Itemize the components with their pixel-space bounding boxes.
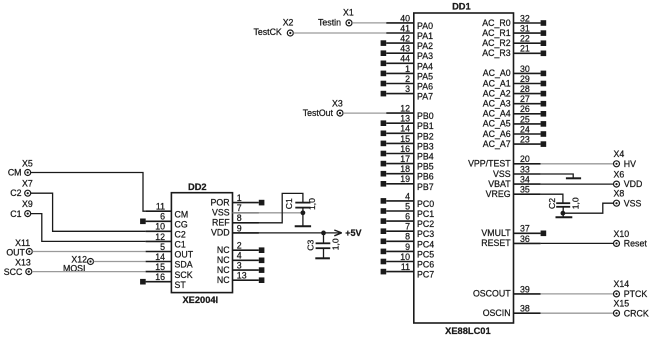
svg-text:34: 34 — [520, 175, 530, 185]
svg-text:SDA: SDA — [175, 260, 193, 270]
terminal X10 Reset — [614, 229, 648, 249]
svg-text:8: 8 — [405, 232, 410, 242]
svg-text:PB6: PB6 — [417, 172, 434, 182]
svg-text:C2: C2 — [175, 230, 186, 240]
terminal X11 OUT — [6, 238, 32, 257]
svg-text:AC_A0: AC_A0 — [483, 68, 511, 78]
svg-text:OUT: OUT — [6, 247, 25, 257]
svg-text:XE88LC01: XE88LC01 — [445, 326, 490, 336]
DD1 pin 17 PB5 — [381, 154, 434, 172]
svg-text:21: 21 — [520, 44, 530, 54]
svg-text:Testin: Testin — [318, 17, 341, 27]
DD1 pin 39 OSCOUT — [473, 284, 541, 298]
IC DD2 XE2004I body — [171, 182, 232, 305]
svg-text:12: 12 — [155, 232, 165, 242]
svg-text:RESET: RESET — [481, 238, 511, 248]
wire X7 C2 to DD2 pin 10 — [31, 193, 146, 231]
svg-text:+5V: +5V — [345, 228, 361, 238]
DD1 pin 35 VREG — [486, 185, 541, 199]
svg-text:10: 10 — [155, 222, 165, 232]
svg-text:SCK: SCK — [175, 270, 193, 280]
svg-text:9: 9 — [237, 223, 242, 233]
svg-text:CM: CM — [175, 209, 189, 219]
svg-text:VPP/TEST: VPP/TEST — [468, 159, 511, 169]
DD1 pin 4 PC0 — [381, 191, 435, 209]
svg-text:32: 32 — [520, 13, 530, 23]
svg-text:PC6: PC6 — [417, 260, 434, 270]
svg-text:3: 3 — [237, 261, 242, 271]
wire DD1 VBAT pin34 to X6 — [541, 183, 613, 185]
DD1 pin 8 PC4 — [381, 232, 435, 250]
terminal X8 VSS — [614, 189, 642, 209]
svg-text:11: 11 — [156, 202, 165, 212]
svg-text:C2: C2 — [10, 188, 21, 198]
DD1 pin 38 OSCIN — [483, 304, 541, 318]
terminal X9 C1 — [10, 199, 33, 219]
svg-text:9: 9 — [405, 242, 410, 252]
wire C2 node to X8 — [563, 203, 613, 213]
svg-text:VREG: VREG — [486, 189, 511, 199]
svg-text:PB3: PB3 — [417, 141, 434, 151]
svg-text:AC_A3: AC_A3 — [483, 99, 511, 109]
terminal X2 TestCK — [253, 17, 293, 37]
svg-text:44: 44 — [400, 54, 410, 64]
DD2 pin 6 CG — [140, 212, 188, 230]
svg-text:7: 7 — [237, 203, 242, 213]
DD1 pin 14 PB2 — [381, 124, 434, 142]
ground for C1 — [295, 225, 311, 227]
svg-text:X7: X7 — [22, 179, 33, 189]
svg-text:VBAT: VBAT — [488, 179, 511, 189]
svg-text:PA1: PA1 — [417, 31, 433, 41]
svg-text:AC_A6: AC_A6 — [483, 129, 511, 139]
svg-text:VDD: VDD — [624, 179, 643, 189]
svg-text:X3: X3 — [332, 99, 343, 109]
wire DD2 VDD pin9 to +5V node — [233, 232, 324, 234]
svg-text:X5: X5 — [22, 158, 33, 168]
svg-text:22: 22 — [520, 34, 530, 44]
svg-text:PC2: PC2 — [417, 219, 434, 229]
svg-text:PB4: PB4 — [417, 152, 434, 162]
svg-text:40: 40 — [400, 13, 410, 23]
wire X3 to DD1 pin 12 — [343, 112, 386, 114]
svg-text:C3: C3 — [305, 239, 315, 250]
svg-text:28: 28 — [520, 84, 530, 94]
svg-text:35: 35 — [520, 185, 530, 195]
svg-text:X6: X6 — [614, 170, 625, 180]
DD1 pin 24 AC_A6 — [483, 124, 546, 138]
svg-text:X13: X13 — [15, 258, 31, 268]
svg-text:AC_R2: AC_R2 — [482, 38, 510, 48]
svg-text:31: 31 — [520, 24, 530, 34]
svg-text:1: 1 — [405, 64, 410, 74]
DD1 pin 18 PB6 — [381, 164, 434, 182]
svg-text:14: 14 — [400, 124, 410, 134]
svg-text:20: 20 — [520, 154, 530, 164]
DD1 pin 43 PA3 — [381, 44, 433, 62]
svg-text:AC_A2: AC_A2 — [483, 88, 511, 98]
svg-text:4: 4 — [405, 191, 410, 201]
terminal X14 PTCK — [614, 279, 648, 299]
DD1 pin 13 PB1 — [381, 114, 434, 132]
svg-text:10: 10 — [400, 252, 410, 262]
svg-text:42: 42 — [400, 34, 410, 44]
DD1 pin 2 PA6 — [381, 74, 433, 92]
svg-text:POR: POR — [211, 197, 230, 207]
ground for C3 — [315, 257, 330, 259]
svg-text:NC: NC — [217, 275, 230, 285]
DD1 pin 37 VMULT — [481, 224, 546, 238]
svg-text:2: 2 — [405, 74, 410, 84]
wire DD2 REF pin8 up to capacitor C1 top — [233, 193, 303, 222]
terminal X15 CRCK — [614, 299, 649, 319]
svg-text:XE2004I: XE2004I — [182, 295, 218, 305]
svg-text:16: 16 — [155, 272, 165, 282]
svg-text:CRCK: CRCK — [624, 308, 649, 318]
svg-text:X4: X4 — [614, 149, 625, 159]
svg-text:1,0: 1,0 — [307, 198, 317, 210]
svg-text:AC_R0: AC_R0 — [482, 18, 510, 28]
DD1 pin 28 AC_A2 — [483, 84, 546, 98]
DD2 pin 14 SDA — [146, 252, 193, 270]
wire DD1 VPP/TEST pin20 to X4 — [541, 163, 613, 165]
DD1 pin 30 AC_A0 — [483, 64, 546, 78]
svg-text:15: 15 — [155, 262, 165, 272]
terminal X13 SCC — [4, 258, 32, 278]
DD1 pin 11 PC7 — [381, 262, 435, 280]
svg-text:PC5: PC5 — [417, 249, 434, 259]
DD2 pin 9 VDD — [211, 223, 259, 237]
DD1 pin 19 PB7 — [381, 174, 434, 192]
svg-text:PA7: PA7 — [417, 92, 433, 102]
svg-text:13: 13 — [237, 271, 247, 281]
DD1 pin 16 PB4 — [381, 144, 434, 162]
svg-text:4: 4 — [237, 251, 242, 261]
svg-text:TestOut: TestOut — [303, 108, 334, 118]
svg-text:1: 1 — [237, 193, 242, 203]
DD1 pin 27 AC_A3 — [483, 94, 546, 108]
wire DD1 OSCOUT pin39 to X14 — [541, 293, 613, 295]
DD1 pin 31 AC_R1 — [482, 24, 546, 38]
DD2 pin 3 NC — [217, 261, 265, 275]
svg-text:TestCK: TestCK — [253, 27, 281, 37]
svg-text:13: 13 — [400, 114, 410, 124]
DD1 pin 26 AC_A4 — [483, 104, 546, 118]
svg-text:NC: NC — [217, 255, 230, 265]
svg-text:VDD: VDD — [211, 228, 230, 238]
svg-text:16: 16 — [400, 144, 410, 154]
svg-text:OUT: OUT — [175, 250, 194, 260]
svg-text:6: 6 — [405, 212, 410, 222]
capacitor C2 — [547, 197, 580, 217]
wire DD1 VREG pin35 to capacitor C2 — [541, 194, 563, 203]
svg-text:VSS: VSS — [212, 208, 230, 218]
svg-text:AC_A1: AC_A1 — [483, 78, 511, 88]
svg-text:CM: CM — [8, 168, 22, 178]
DD1 pin 10 PC6 — [381, 252, 435, 270]
DD1 pin 12 PB0 — [386, 104, 434, 122]
svg-text:X9: X9 — [22, 199, 33, 209]
DD1 pin 40 PA0 — [386, 13, 433, 31]
terminal X6 VDD — [614, 170, 643, 190]
wire DD2 VSS pin7 to C1 node — [233, 212, 302, 214]
svg-text:1,0: 1,0 — [330, 238, 340, 250]
svg-text:5: 5 — [160, 242, 165, 252]
svg-text:43: 43 — [400, 44, 410, 54]
svg-text:11: 11 — [401, 262, 410, 272]
svg-text:38: 38 — [520, 304, 530, 314]
terminal X3 TestOut — [303, 99, 343, 118]
svg-text:PA5: PA5 — [417, 71, 433, 81]
DD1 pin 5 PC1 — [381, 201, 435, 219]
svg-text:PB1: PB1 — [417, 121, 434, 131]
terminal X1 Testin — [318, 8, 354, 28]
svg-text:15: 15 — [400, 134, 410, 144]
svg-text:NC: NC — [217, 265, 230, 275]
DD1 pin 22 AC_R2 — [482, 34, 546, 48]
svg-text:12: 12 — [400, 104, 410, 114]
svg-text:PC1: PC1 — [417, 209, 434, 219]
svg-text:PC0: PC0 — [417, 199, 434, 209]
wire DD1 OSCIN pin38 to X15 — [541, 312, 613, 314]
IC DD1 XE88LC01 body — [414, 1, 514, 336]
svg-text:PC7: PC7 — [417, 270, 434, 280]
junction node C1/VSS — [301, 210, 306, 215]
DD1 pin 6 PC2 — [381, 212, 435, 230]
svg-text:PA2: PA2 — [417, 41, 433, 51]
DD1 pin 15 PB3 — [381, 134, 434, 152]
svg-text:17: 17 — [400, 154, 410, 164]
svg-text:X1: X1 — [343, 8, 354, 18]
svg-text:25: 25 — [520, 114, 530, 124]
DD2 pin 4 NC — [217, 251, 265, 265]
svg-text:AC_R1: AC_R1 — [482, 28, 510, 38]
svg-text:19: 19 — [400, 174, 410, 184]
capacitor C1 — [284, 198, 317, 226]
capacitor C3 — [305, 233, 340, 258]
svg-text:PB0: PB0 — [417, 111, 434, 121]
wire X9 C1 to DD2 pin 12 — [31, 214, 146, 242]
svg-text:1,0: 1,0 — [571, 197, 581, 209]
terminal X7 C2 — [10, 179, 33, 199]
DD2 pin 8 REF — [212, 213, 259, 227]
svg-text:DD1: DD1 — [452, 1, 471, 11]
svg-text:Reset: Reset — [624, 239, 648, 249]
svg-text:36: 36 — [520, 234, 530, 244]
wire X1 to DD1 pin 40 — [352, 22, 386, 24]
DD2 pin 13 NC — [217, 271, 265, 285]
svg-text:PA4: PA4 — [417, 61, 433, 71]
wire X2 to DD1 pin 41 — [294, 32, 387, 34]
svg-text:PC4: PC4 — [417, 239, 434, 249]
DD2 pin 11 CM — [146, 202, 189, 220]
svg-text:AC_A7: AC_A7 — [483, 139, 511, 149]
DD1 pin 36 RESET — [481, 234, 540, 248]
svg-text:C2: C2 — [547, 198, 557, 209]
svg-text:29: 29 — [520, 74, 530, 84]
svg-text:REF: REF — [212, 218, 230, 228]
DD2 pin 16 ST — [140, 272, 186, 290]
svg-text:X8: X8 — [614, 189, 625, 199]
wire DD1 RESET pin36 to X10 — [541, 242, 613, 244]
svg-text:18: 18 — [400, 164, 410, 174]
DD2 pin 5 OUT — [146, 242, 194, 260]
ground for VSS33 — [566, 177, 581, 179]
svg-text:HV: HV — [624, 159, 636, 169]
+5V power arrow — [324, 228, 362, 238]
svg-text:PA3: PA3 — [417, 51, 433, 61]
svg-text:39: 39 — [520, 284, 530, 294]
svg-text:PB2: PB2 — [417, 131, 434, 141]
svg-text:NC: NC — [217, 245, 230, 255]
svg-text:23: 23 — [520, 135, 530, 145]
DD1 pin 33 VSS — [493, 164, 541, 178]
DD1 pin 29 AC_A1 — [483, 74, 546, 88]
DD1 pin 41 PA1 — [386, 23, 433, 41]
junction node C2/X8 — [561, 211, 566, 216]
terminal X12 MOSI — [63, 255, 93, 274]
DD1 pin 23 AC_A7 — [483, 135, 546, 149]
wire X13 SCC to DD2 pin 15 — [32, 271, 146, 273]
svg-text:33: 33 — [520, 164, 530, 174]
DD2 pin 1 POR — [211, 193, 265, 207]
DD1 pin 42 PA2 — [381, 34, 433, 52]
svg-text:AC_R3: AC_R3 — [482, 48, 510, 58]
DD1 pin 20 VPP/TEST — [468, 154, 541, 168]
svg-text:24: 24 — [520, 124, 530, 134]
svg-text:C1: C1 — [10, 209, 21, 219]
svg-text:X2: X2 — [283, 17, 294, 27]
svg-text:ST: ST — [175, 280, 187, 290]
DD2 pin 2 NC — [217, 241, 265, 255]
svg-text:X10: X10 — [614, 229, 630, 239]
svg-text:27: 27 — [520, 94, 530, 104]
DD1 pin 32 AC_R0 — [482, 13, 546, 27]
svg-text:8: 8 — [237, 213, 242, 223]
DD1 pin 21 AC_R3 — [482, 44, 546, 58]
wire DD1 VSS pin33 to ground — [541, 174, 574, 178]
svg-text:AC_A5: AC_A5 — [483, 119, 511, 129]
DD1 pin 25 AC_A5 — [483, 114, 546, 128]
svg-text:7: 7 — [405, 222, 410, 232]
svg-text:2: 2 — [237, 241, 242, 251]
DD2 pin 10 C2 — [146, 222, 186, 240]
svg-text:3: 3 — [405, 84, 410, 94]
svg-text:OSCIN: OSCIN — [483, 308, 511, 318]
svg-text:X15: X15 — [614, 299, 630, 309]
svg-text:14: 14 — [155, 252, 165, 262]
svg-text:VSS: VSS — [493, 169, 511, 179]
DD2 pin 12 C1 — [146, 232, 186, 250]
wire X5 CM to DD2 pin 11 — [31, 173, 146, 212]
svg-text:30: 30 — [520, 64, 530, 74]
svg-text:C1: C1 — [284, 198, 294, 209]
terminal X5 CM — [8, 158, 33, 177]
svg-text:VSS: VSS — [624, 198, 642, 208]
svg-text:DD2: DD2 — [188, 182, 207, 192]
DD1 pin 9 PC5 — [381, 242, 435, 260]
svg-text:5: 5 — [405, 201, 410, 211]
svg-text:41: 41 — [400, 23, 410, 33]
terminal X4 HV — [614, 149, 637, 169]
svg-text:PA0: PA0 — [417, 21, 433, 31]
DD1 pin 34 VBAT — [488, 175, 540, 189]
wire X11 OUT to DD2 pin 5 — [32, 251, 145, 253]
DD1 pin 7 PC3 — [381, 222, 435, 240]
DD1 pin 1 PA5 — [381, 64, 433, 82]
ground for C2 — [556, 216, 573, 218]
DD2 pin 7 VSS — [212, 203, 259, 217]
svg-text:AC_A4: AC_A4 — [483, 109, 511, 119]
junction node +5V/C3 — [321, 231, 326, 236]
svg-text:6: 6 — [160, 212, 165, 222]
svg-text:PA6: PA6 — [417, 82, 433, 92]
svg-text:37: 37 — [520, 224, 530, 234]
svg-text:CG: CG — [175, 220, 188, 230]
svg-text:VMULT: VMULT — [481, 228, 511, 238]
svg-text:X14: X14 — [614, 279, 630, 289]
wire X12 MOSI to DD2 pin 14 — [94, 261, 146, 263]
svg-text:PB7: PB7 — [417, 182, 434, 192]
svg-text:PC3: PC3 — [417, 229, 434, 239]
DD2 pin 15 SCK — [146, 262, 193, 280]
DD1 pin 3 PA7 — [381, 84, 433, 102]
svg-text:OSCOUT: OSCOUT — [473, 289, 511, 299]
svg-text:C1: C1 — [175, 240, 186, 250]
svg-text:26: 26 — [520, 104, 530, 114]
svg-text:SCC: SCC — [4, 267, 23, 277]
svg-text:PB5: PB5 — [417, 162, 434, 172]
DD1 pin 44 PA4 — [381, 54, 433, 72]
